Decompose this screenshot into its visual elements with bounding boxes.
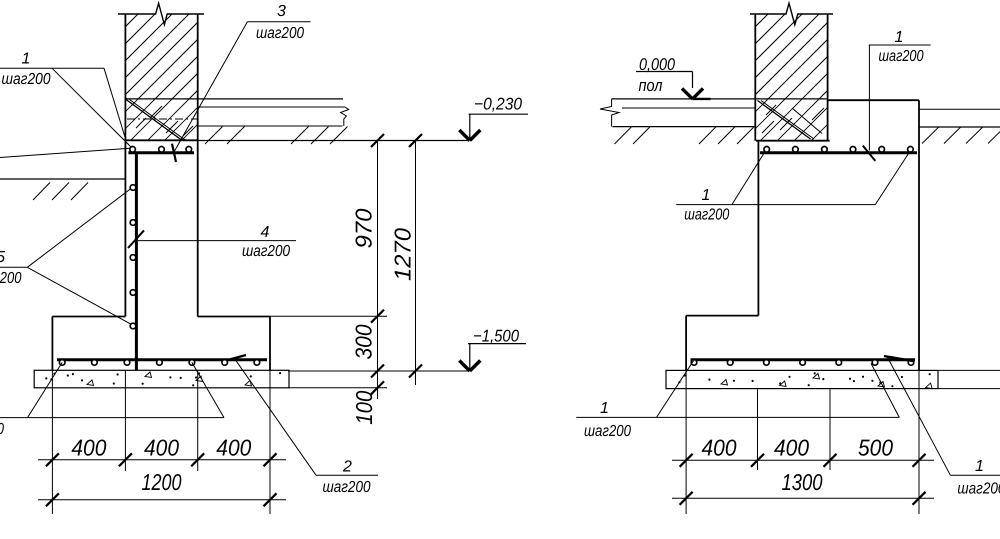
right drawing: foundation left edge xyxy=(757,141,759,316)
left drawing: label 3 number xyxy=(277,3,286,20)
right drawing: label 1 mid text xyxy=(684,206,729,223)
right drawing: dim text 400 b xyxy=(774,435,809,461)
svg-text:шаг200: шаг200 xyxy=(323,479,371,496)
svg-text:шаг200: шаг200 xyxy=(0,270,21,287)
svg-text:5: 5 xyxy=(0,249,5,266)
right drawing: lean concrete pad xyxy=(666,370,938,388)
left drawing: extension line a xyxy=(51,370,53,514)
right drawing: pad top level line right xyxy=(938,369,1000,371)
left drawing: footing right side xyxy=(269,317,271,371)
svg-text:1300: 1300 xyxy=(782,469,823,495)
right drawing: label 1 bottom-right underline xyxy=(950,474,1000,476)
left drawing: label 1 top-left leaders xyxy=(52,68,131,146)
right drawing: floor screed line xyxy=(622,107,755,109)
right drawing: dimension line 1300 xyxy=(672,492,934,505)
left drawing: mid-left label number cut xyxy=(0,249,5,266)
left drawing: label 2 underline xyxy=(316,474,378,476)
left drawing: floor slab end break xyxy=(341,107,349,126)
right drawing: extension line a xyxy=(685,370,687,514)
svg-text:−0,230: −0,230 xyxy=(474,95,522,114)
right drawing: foundation step line xyxy=(686,315,758,317)
right drawing: wall below floor marks xyxy=(762,105,824,134)
right drawing: label 1 bottom-left text xyxy=(584,423,631,440)
right drawing: floor finish line xyxy=(612,98,828,100)
left drawing: label 3 leader xyxy=(174,22,247,152)
svg-text:шаг200: шаг200 xyxy=(242,243,290,260)
right drawing: foundation ledge top line xyxy=(828,99,919,101)
right drawing: label 1 bottom-left leaders xyxy=(657,361,900,418)
left drawing: extension line c xyxy=(197,371,199,471)
left drawing: footing top left edge xyxy=(52,316,125,318)
left drawing: floor screed line xyxy=(198,106,345,108)
right drawing: soil hatch left of wall xyxy=(615,127,755,144)
svg-text:1: 1 xyxy=(975,458,984,475)
left drawing: label 1 top-left text xyxy=(2,71,51,88)
svg-text:4: 4 xyxy=(261,224,270,241)
right drawing: extension line d xyxy=(918,370,920,514)
svg-text:пол: пол xyxy=(639,76,663,95)
left drawing: foundation wall right edge xyxy=(197,140,199,316)
left drawing: bottom reinforcement mesh bar xyxy=(57,358,267,361)
left drawing: label 4 leader tick xyxy=(128,230,144,248)
svg-text:970: 970 xyxy=(351,208,377,248)
left drawing: label 4 leader line xyxy=(138,240,296,242)
svg-text:400: 400 xyxy=(702,435,737,461)
right drawing: bottom mesh leader tick mark xyxy=(884,356,914,361)
left drawing: dim text 400 c xyxy=(216,435,251,461)
svg-text:400: 400 xyxy=(144,435,179,461)
right drawing: label 1 bottom-right number xyxy=(975,458,984,475)
left drawing: floor finish line xyxy=(125,98,343,100)
left drawing: label 4 text xyxy=(242,243,290,260)
right drawing: label 1 top leader xyxy=(868,45,870,151)
left drawing: footing bottom level line xyxy=(288,370,470,372)
svg-text:400: 400 xyxy=(774,435,809,461)
left drawing: dim text 300 xyxy=(351,324,377,359)
right drawing: label 1 bottom-left number xyxy=(600,400,609,417)
left drawing: elevation mark -0,230 xyxy=(459,95,528,141)
right drawing: label 1 bottom-right leader xyxy=(887,356,950,475)
right drawing: footing left side xyxy=(685,316,687,371)
right drawing: label 1 bottom-left underline xyxy=(576,416,899,418)
left drawing: label 1 top-left underline xyxy=(0,67,104,69)
left drawing: pad bottom level line xyxy=(288,387,387,389)
left drawing: bottom-left label text cut xyxy=(0,421,4,438)
right drawing: dimension line 400-400-500 xyxy=(672,454,934,467)
svg-text:3: 3 xyxy=(277,3,286,20)
left drawing: label 4 number xyxy=(261,224,270,241)
left drawing: lean concrete pad xyxy=(34,370,289,388)
right drawing: wall brick hatching xyxy=(683,14,904,99)
left drawing: top mesh rebar circles xyxy=(130,147,192,153)
svg-text:1200: 1200 xyxy=(142,469,182,495)
right drawing: elevation mark 0,000 pol xyxy=(636,55,711,99)
svg-text:1270: 1270 xyxy=(390,228,416,281)
svg-text:−1,500: −1,500 xyxy=(473,327,519,346)
left drawing: vertical rebar bar xyxy=(135,152,138,370)
left drawing: top mesh leader tick xyxy=(172,144,176,162)
left drawing: label 2 text xyxy=(323,479,371,496)
svg-text:300: 300 xyxy=(351,324,377,359)
right drawing: extension line b xyxy=(757,389,759,470)
left drawing: label 1 top-left number xyxy=(22,51,31,68)
right drawing: floor slab left end break xyxy=(600,99,619,127)
left drawing: footing left side xyxy=(51,317,53,371)
right drawing: floor line right of foundation xyxy=(919,108,1000,110)
svg-text:500: 500 xyxy=(858,435,893,461)
right drawing: dim text 1300 xyxy=(782,469,823,495)
left drawing: dim text 400 a xyxy=(71,435,106,461)
left drawing: wall top edge with break symbol xyxy=(118,3,204,24)
left drawing: floor slab bottom line xyxy=(198,125,343,127)
right drawing: wall bottom thick line xyxy=(756,140,830,142)
left drawing: label 3 text xyxy=(256,25,304,42)
left drawing: wall brick hatching xyxy=(53,14,274,99)
right drawing: top reinforcement mesh bar xyxy=(760,151,917,154)
right drawing: ground line left of wall xyxy=(613,126,756,128)
left drawing: foundation wall left edge xyxy=(124,140,126,316)
left drawing: mid-left label text cut xyxy=(0,270,21,287)
right drawing: label 1 top number xyxy=(895,29,904,46)
left drawing: vertical rebar circles xyxy=(130,185,136,329)
left drawing: footing top right edge xyxy=(198,316,270,318)
left drawing: dim text 100 xyxy=(351,391,377,425)
svg-text:шаг200: шаг200 xyxy=(0,421,4,438)
right drawing: soil hatch right of foundation xyxy=(922,127,1000,144)
right drawing: brick wall right edge xyxy=(827,14,829,141)
left drawing: bottom mesh rebar circles xyxy=(59,360,259,366)
svg-text:шаг200: шаг200 xyxy=(957,481,1000,498)
right drawing: label 1 bottom-right text xyxy=(957,481,1000,498)
right drawing: ground line right of foundation xyxy=(919,126,1000,128)
right drawing: top mesh rebar circles xyxy=(764,147,913,153)
left drawing: bottom mesh leader tick mark xyxy=(230,355,246,359)
svg-text:шаг200: шаг200 xyxy=(2,71,51,88)
svg-text:шаг200: шаг200 xyxy=(684,206,729,223)
left drawing: wall below floor waterproofing diagonal xyxy=(126,100,186,141)
right drawing: foundation right edge xyxy=(918,100,920,370)
right drawing: bottom reinforcement mesh bar xyxy=(691,358,916,361)
left drawing: top reinforcement mesh bar xyxy=(128,151,194,154)
left drawing: dimension line 1200 xyxy=(38,493,286,506)
right drawing: wall below floor waterproofing diagonal xyxy=(758,101,815,140)
right drawing: dim text 500 xyxy=(858,435,893,461)
svg-text:2: 2 xyxy=(342,459,352,476)
left drawing: leader line from left edge to wall corner xyxy=(0,148,129,157)
left drawing: vertical dimension line 1270 xyxy=(409,134,422,385)
right drawing: brick wall left edge xyxy=(754,14,756,141)
svg-text:100: 100 xyxy=(351,391,377,425)
left drawing: underfloor soil hatch xyxy=(205,127,348,145)
left drawing: vertical dimension line 970-300-100 xyxy=(371,134,384,399)
left drawing: wall hatch below floor xyxy=(97,99,223,140)
svg-text:1: 1 xyxy=(895,29,904,46)
left drawing: brick wall left edge xyxy=(124,14,126,140)
right drawing: label 1 top text xyxy=(879,48,924,65)
right drawing: wall hatch below floor xyxy=(726,99,853,141)
right drawing: label 1 mid number xyxy=(702,187,711,204)
left drawing: label 2 number xyxy=(342,459,352,476)
svg-text:шаг200: шаг200 xyxy=(879,48,924,65)
left drawing: label 2 leader xyxy=(234,358,316,475)
left drawing: dim text 400 b xyxy=(144,435,179,461)
svg-text:1: 1 xyxy=(22,51,31,68)
right drawing: wall top edge with break symbol xyxy=(750,3,833,24)
left drawing: exterior ground line xyxy=(0,178,125,180)
right drawing: label 1 mid leaders xyxy=(732,153,909,204)
left drawing: extension line d xyxy=(269,317,271,515)
right drawing: dim text 400 a xyxy=(702,435,737,461)
right drawing: pad bottom level line right xyxy=(938,388,1000,390)
svg-text:шаг200: шаг200 xyxy=(256,25,304,42)
right drawing: extension line c xyxy=(829,389,831,470)
left drawing: dimension line 400-400-400 xyxy=(38,453,286,466)
left drawing: ground line right of wall xyxy=(198,140,470,142)
left drawing: exterior ground hatch xyxy=(33,183,88,201)
left drawing: footing top level line xyxy=(270,315,387,317)
left drawing: wall below floor marks xyxy=(127,106,197,136)
right drawing: top mesh leader tick xyxy=(863,146,876,161)
left drawing: dim text 1270 xyxy=(390,228,416,281)
left drawing: foundation wall bottom of brick wall line xyxy=(125,139,197,141)
right drawing: bottom mesh rebar circles xyxy=(691,360,914,366)
svg-text:шаг200: шаг200 xyxy=(584,423,631,440)
left drawing: brick wall right edge xyxy=(197,14,199,140)
svg-text:1: 1 xyxy=(702,187,711,204)
right drawing: label 1 mid underline xyxy=(676,204,732,206)
left drawing: elevation mark -1,500 xyxy=(459,327,526,372)
left drawing: extension line b xyxy=(124,371,126,471)
svg-text:400: 400 xyxy=(71,435,106,461)
left drawing: mid-left leader to vertical rebar xyxy=(0,189,132,325)
left drawing: dim text 1200 xyxy=(142,469,182,495)
svg-text:400: 400 xyxy=(216,435,251,461)
left drawing: bottom-left leader to mesh xyxy=(0,362,224,417)
svg-text:1: 1 xyxy=(600,400,609,417)
left drawing: label 3 underline xyxy=(247,21,310,23)
left drawing: dim text 970 xyxy=(351,208,377,248)
right drawing: label 1 top underline xyxy=(869,44,931,46)
